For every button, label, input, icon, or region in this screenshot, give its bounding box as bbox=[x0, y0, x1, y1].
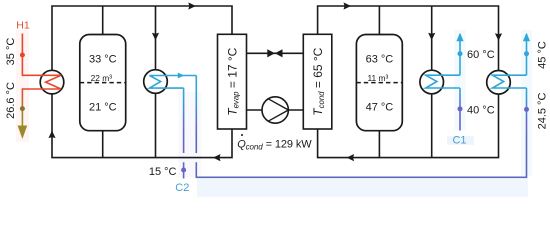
node: 15 C marker bbox=[181, 168, 186, 173]
arrow up 60 C bbox=[456, 33, 463, 42]
faint halo along right risers bbox=[455, 30, 466, 130]
arrow up 45 C bbox=[523, 33, 530, 42]
HX E3 port pipes bbox=[508, 74, 527, 76]
svg-text:22 m³: 22 m³ bbox=[91, 73, 113, 83]
svg-text:21 °C: 21 °C bbox=[89, 101, 117, 113]
cold water pipe: E1 outlet to E3 inlet (24.5 C run) bbox=[195, 76, 197, 131]
wire: tank T2 bottom stub bbox=[378, 131, 380, 158]
E1 coil zigzag bbox=[150, 76, 168, 89]
pipe: E3 outlet riser (45 C) bbox=[526, 34, 528, 75]
svg-text:40 °C: 40 °C bbox=[467, 104, 495, 116]
wire: tank T1 top stub bbox=[102, 6, 104, 35]
faint halo behind C1 label bbox=[447, 136, 474, 145]
H1 coil zigzag bbox=[41, 75, 62, 89]
wire: tank T2 top stub bbox=[378, 6, 380, 35]
faint halo along C2 pipes bbox=[179, 92, 202, 177]
node: 40 C marker bbox=[458, 106, 463, 111]
svg-text:Qcond = 129 kW: Qcond = 129 kW bbox=[237, 138, 312, 151]
pipe: C2 inlet riser (15 C) bbox=[183, 88, 185, 153]
svg-text:24.5 °C: 24.5 °C bbox=[536, 93, 548, 130]
arrow down into HX E1 bbox=[152, 33, 159, 41]
wire: evaporator-condenser bottom link (compressor line) bbox=[247, 109, 304, 111]
svg-text:47 °C: 47 °C bbox=[366, 101, 394, 113]
arrow left on right loop bottom bbox=[347, 154, 355, 161]
condenser box bbox=[303, 34, 332, 129]
svg-text:H1: H1 bbox=[16, 19, 30, 31]
wire: vertical through HX E1 bbox=[155, 6, 157, 158]
svg-text:C1: C1 bbox=[452, 134, 466, 146]
tank T1 dashed thermocline bbox=[80, 82, 126, 84]
tank T1 bbox=[80, 35, 126, 131]
node: 26.6 C marker bbox=[20, 106, 25, 111]
heat exchanger H1 circle bbox=[40, 70, 64, 94]
arrow left on left loop bottom bbox=[213, 154, 221, 161]
pipe: E2 inlet drop (40 C / C1) bbox=[459, 88, 461, 131]
node: 45 C marker bbox=[524, 51, 529, 56]
arrow right on E1 outlet bbox=[178, 73, 185, 79]
svg-text:C2: C2 bbox=[175, 182, 189, 194]
wire: right loop rectangle bbox=[318, 6, 499, 158]
wire: evaporator-condenser top link (expansion valve line) bbox=[247, 52, 304, 54]
node: 35 C marker bbox=[20, 53, 25, 58]
HX E2 port pipes bbox=[442, 74, 460, 76]
arrow down into HX E2 bbox=[428, 33, 435, 41]
pipe: E2 outlet riser (60 C) bbox=[459, 34, 461, 75]
svg-text:26.6 °C: 26.6 °C bbox=[5, 82, 17, 119]
evaporator box bbox=[218, 34, 247, 129]
arrow down into HX E3 bbox=[495, 33, 502, 41]
arrow right on left loop top bbox=[188, 2, 196, 9]
arrow up on left loop left side bbox=[48, 131, 55, 139]
faint halo along H1 pipes bbox=[16, 30, 29, 142]
heat exchanger E2 circle bbox=[420, 70, 444, 94]
compressor bbox=[262, 97, 288, 123]
svg-text:11 m³: 11 m³ bbox=[368, 73, 389, 83]
expansion valve bbox=[267, 49, 275, 57]
H1 return pipe (26.6 C) bbox=[22, 89, 40, 131]
svg-text:35 °C: 35 °C bbox=[5, 38, 17, 66]
tank T2 dashed thermocline bbox=[356, 82, 402, 84]
wire: vertical through HX E2 bbox=[431, 6, 433, 158]
svg-text:45 °C: 45 °C bbox=[536, 41, 548, 69]
tank T2 bbox=[356, 35, 402, 131]
H1 hot inlet pipe (35 C) bbox=[22, 34, 40, 76]
HX E1 port pipes (cyan) bbox=[166, 75, 196, 77]
heat exchanger E3 circle bbox=[487, 71, 511, 95]
wire: tank T1 bottom stub bbox=[102, 131, 104, 158]
svg-text:33 °C: 33 °C bbox=[89, 53, 117, 65]
light blue band under bottom cold-water pipe bbox=[197, 179, 528, 197]
svg-text:63 °C: 63 °C bbox=[366, 53, 394, 65]
heat exchanger E1 circle bbox=[144, 70, 168, 94]
arrow right on right loop top bbox=[344, 2, 352, 9]
Q overdot bbox=[241, 134, 243, 136]
svg-text:15 °C: 15 °C bbox=[149, 166, 177, 178]
svg-text:60 °C: 60 °C bbox=[467, 49, 495, 61]
node: 60 C marker bbox=[458, 51, 463, 56]
E2 coil zigzag bbox=[426, 75, 443, 88]
wire: left loop rectangle bbox=[52, 6, 232, 158]
node: 24.5 C marker bbox=[524, 107, 529, 112]
arrow down H1 out bbox=[18, 126, 28, 140]
E3 coil zigzag bbox=[493, 75, 511, 88]
